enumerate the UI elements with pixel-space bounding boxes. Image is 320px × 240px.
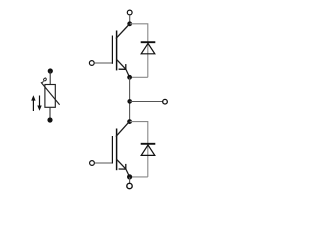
node: upper collector junction dot [127,21,132,26]
wire: collector node to upper diode cathode [130,24,148,78]
diode D2 [141,144,156,156]
diode D1 [141,42,156,54]
node: thermistor top terminal dot [48,68,53,73]
T1 gate bar [111,36,113,64]
wire: AC output lead [130,101,163,103]
node: AC output junction dot [127,99,132,104]
wire: top terminal to collector node [129,15,131,24]
thermistor R1 [31,68,59,122]
node: upper emitter junction dot [127,75,132,80]
wire: lower collector node to lower diode cathode [130,122,148,177]
T2 emitter lead upper segment [117,159,126,169]
diode D1 triangle [141,43,155,53]
T2 main bar [116,129,118,171]
diode D2 cathode bar [141,143,156,145]
T2 emitter arrow head barb vertical [125,164,127,169]
wire: mid rail [129,77,131,121]
terminal: gate 1 (open circle) [89,61,94,66]
thermistor theta mark [42,78,46,83]
terminal: emitter bottom (open circle) [127,183,132,188]
thermistor body rectangle [45,85,55,108]
terminal: collector top (open circle) [127,10,132,15]
wire: gate 1 lead [94,62,113,64]
T1 emitter arrow head barb vertical [125,64,127,69]
IGBT T1 [89,24,129,78]
node: thermistor bottom terminal dot [47,117,52,122]
T1 emitter lead upper segment [117,60,126,70]
wire: gate 2 lead [95,162,113,164]
T1 emitter arrow head barb horizontal [119,68,126,70]
terminal: AC output (open circle) [163,99,168,104]
IGBT T2 [90,121,130,176]
terminal: gate 2 (open circle) [90,161,95,166]
wire: thermistor bottom lead [49,107,51,120]
T1 main bar [116,31,118,71]
arrow up (temperature) [32,99,34,112]
node: lower emitter junction dot [127,174,132,179]
T2 emitter lead lower segment [126,169,130,177]
thermistor diagonal line [41,82,60,105]
T1 collector lead [116,24,130,39]
T2 gate bar [111,136,113,164]
wire: emitter node to bottom terminal [129,177,131,183]
wire: upper diode anode to emitter node [130,76,148,78]
T2 collector lead [116,121,130,136]
arrow down (resistance) [39,96,41,108]
wire: thermistor top lead [49,71,51,85]
diode D2 triangle [141,145,155,155]
diode D1 cathode bar [141,41,156,43]
node: lower collector junction dot [127,119,132,124]
T1 emitter lead lower segment [126,69,130,77]
T2 emitter arrow head barb horizontal [119,168,126,170]
wire: lower diode anode to lower emitter node [130,176,148,178]
